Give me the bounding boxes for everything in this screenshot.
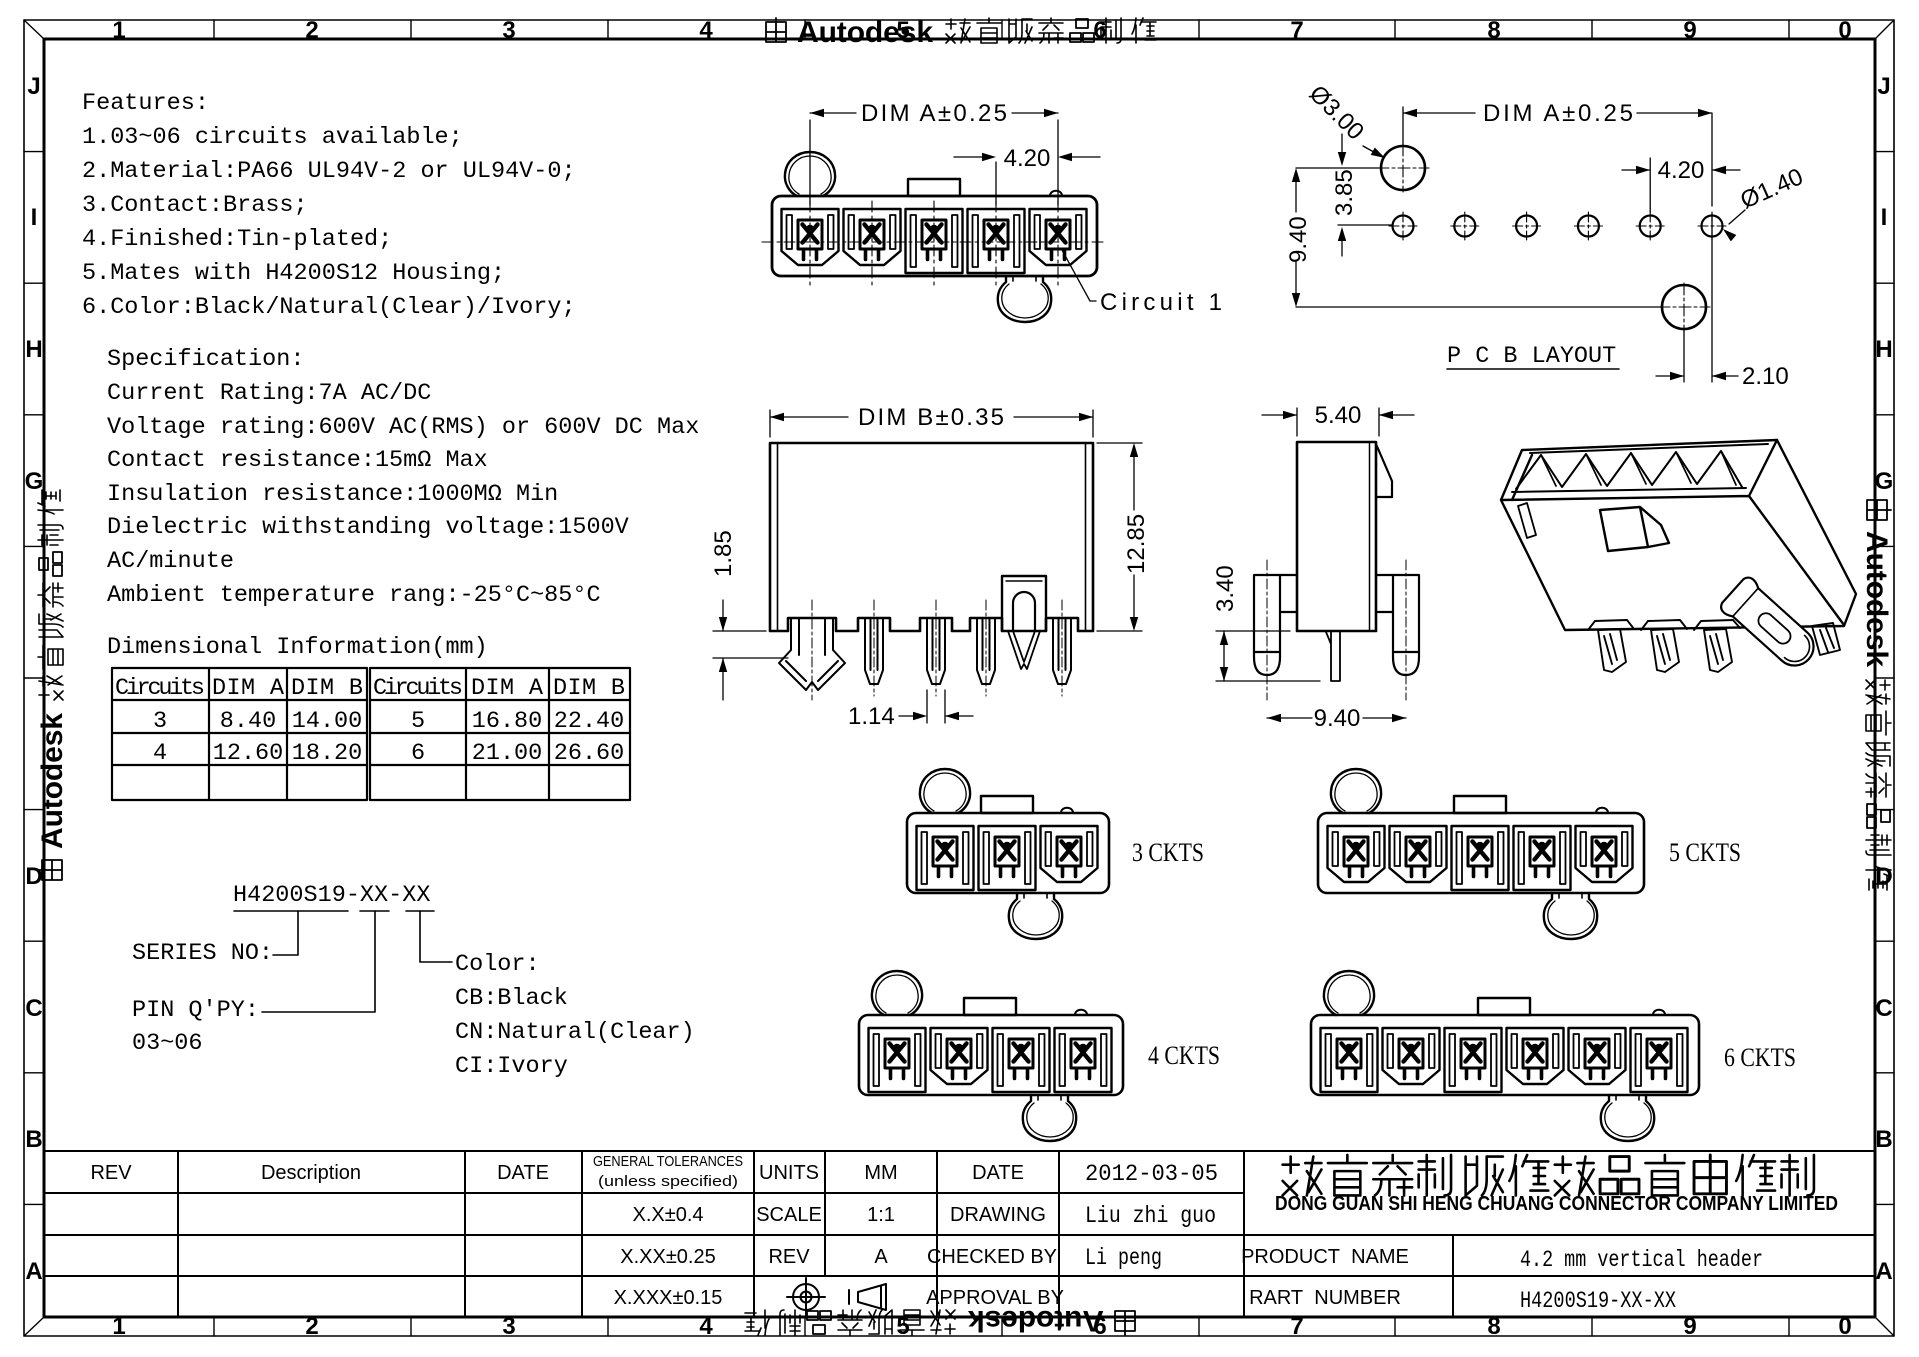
circuit 4 cavity — [844, 209, 901, 265]
4 CKTS circuit 1 cavity — [869, 1028, 926, 1092]
6 CKTS circuit 1 cavity — [1321, 1028, 1378, 1092]
svg-text:1.03~06 circuits available;: 1.03~06 circuits available; — [82, 124, 463, 151]
svg-text:P C B LAYOUT: P C B LAYOUT — [1447, 343, 1616, 370]
housing body — [770, 443, 1093, 631]
svg-text:H: H — [1875, 336, 1892, 363]
svg-text:SCALE: SCALE — [756, 1204, 822, 1226]
left slot — [1518, 503, 1536, 538]
projection symbols — [787, 1278, 886, 1316]
svg-text:Liu zhi guo: Liu zhi guo — [1085, 1203, 1216, 1230]
dim 5.40 — [1262, 408, 1414, 436]
4 CKTS circuit 3 cavity — [993, 1028, 1050, 1092]
3 CKTS circuit 3 cavity — [1041, 826, 1098, 882]
svg-text:7: 7 — [1290, 17, 1303, 44]
svg-text:9: 9 — [1683, 17, 1696, 44]
svg-text:21.00: 21.00 — [472, 740, 543, 767]
svg-text:8: 8 — [1487, 1313, 1500, 1340]
6 CKTS circuit 5 cavity — [1569, 1028, 1626, 1084]
svg-text:Insulation resistance:1000MΩ M: Insulation resistance:1000MΩ Min — [107, 481, 558, 508]
pin 4 — [977, 618, 995, 684]
svg-text:6: 6 — [1093, 17, 1106, 44]
svg-text:4 CKTS: 4 CKTS — [1148, 1041, 1220, 1070]
svg-text:H4200S19-XX-XX: H4200S19-XX-XX — [1520, 1288, 1676, 1315]
svg-text:2.10: 2.10 — [1742, 363, 1789, 390]
svg-text:6.Color:Black/Natural(Clear)/I: 6.Color:Black/Natural(Clear)/Ivory; — [82, 294, 576, 321]
svg-text:C: C — [1875, 995, 1892, 1022]
svg-text:4: 4 — [699, 17, 713, 44]
dim 9.40 — [1267, 717, 1406, 719]
latch tab — [908, 179, 960, 196]
svg-text:2.Material:PA66 UL94V-2 or UL9: 2.Material:PA66 UL94V-2 or UL94V-0; — [82, 158, 576, 185]
svg-text:DRAWING: DRAWING — [950, 1204, 1046, 1226]
svg-text:4.Finished:Tin-plated;: 4.Finished:Tin-plated; — [82, 226, 392, 253]
wire: cell centerlines dashed — [762, 201, 1107, 287]
svg-text:Description: Description — [261, 1162, 361, 1184]
svg-text:4.20: 4.20 — [1004, 145, 1051, 172]
dim 3.85 — [1338, 134, 1392, 256]
circuit 2 cavity — [968, 209, 1025, 273]
svg-text:03~06: 03~06 — [132, 1030, 203, 1057]
5 CKTS circuit 2 cavity — [1390, 826, 1447, 882]
svg-text:8: 8 — [1487, 17, 1500, 44]
mounting ear top — [785, 152, 835, 196]
svg-text:1: 1 — [112, 17, 125, 44]
hole A2 (Ø3.00) bottom right — [1662, 285, 1706, 329]
watermark right (rotated 90) — [1860, 500, 1893, 890]
svg-text:X.XX±0.25: X.XX±0.25 — [620, 1246, 715, 1268]
svg-text:H4200S19-XX-XX: H4200S19-XX-XX — [233, 882, 430, 909]
svg-text:DIM A: DIM A — [471, 675, 544, 702]
watermark bottom (rotated 180) — [745, 1304, 1135, 1337]
pin 5 — [1008, 618, 1071, 684]
6 CKTS circuit 6 cavity — [1631, 1028, 1688, 1092]
6 CKTS circuit 2 cavity — [1383, 1028, 1440, 1084]
mounting ear bottom — [998, 276, 1051, 322]
svg-text:DIM B: DIM B — [291, 675, 363, 702]
svg-text:6: 6 — [411, 740, 425, 767]
svg-text:4.2 mm vertical header: 4.2 mm vertical header — [1520, 1247, 1763, 1274]
dim 1.14 — [899, 690, 973, 723]
svg-text:5 CKTS: 5 CKTS — [1669, 838, 1741, 867]
4 CKTS circuit 4 cavity — [1055, 1028, 1112, 1092]
dim DIM A±0.25 — [1403, 107, 1712, 206]
pin 1 crimp — [779, 618, 845, 690]
svg-text:GENERAL TOLERANCES: GENERAL TOLERANCES — [593, 1153, 743, 1170]
svg-text:H: H — [25, 336, 42, 363]
svg-text:AC/minute: AC/minute — [107, 548, 234, 575]
3 CKTS circuit 1 cavity — [917, 826, 974, 890]
svg-text:C: C — [25, 995, 42, 1022]
right leg — [1376, 575, 1419, 675]
svg-text:MM: MM — [864, 1162, 897, 1184]
svg-text:3.Contact:Brass;: 3.Contact:Brass; — [82, 192, 308, 219]
6 CKTS circuit 4 cavity — [1507, 1028, 1564, 1084]
svg-text:B: B — [25, 1126, 42, 1153]
dim DIM B±0.35 — [770, 410, 1093, 437]
body — [1297, 442, 1376, 631]
company chinese name (fake glyphs) + english — [1283, 1155, 1814, 1196]
top strip front edge + front face right edge — [1501, 440, 1844, 625]
svg-text:5: 5 — [411, 708, 425, 735]
pin 2 — [865, 618, 883, 684]
connector body 5ckt — [772, 196, 1097, 276]
svg-text:5: 5 — [896, 1313, 909, 1340]
svg-text:A: A — [25, 1258, 42, 1285]
hole A1 (Ø3.00) — [1381, 146, 1425, 190]
dim 4.20 — [982, 153, 996, 161]
6 CKTS circuit 3 cavity — [1445, 1028, 1502, 1092]
leader Circuit 1 — [1062, 250, 1096, 301]
svg-text:Features:: Features: — [82, 90, 209, 117]
svg-text:I: I — [31, 204, 38, 231]
peg tower — [1002, 576, 1046, 631]
svg-text:9.40: 9.40 — [1285, 216, 1312, 263]
ruler ticks top/bottom — [214, 20, 1789, 39]
svg-text:3.85: 3.85 — [1331, 169, 1358, 216]
svg-text:12.85: 12.85 — [1123, 514, 1150, 574]
svg-text:A: A — [874, 1246, 888, 1268]
svg-text:Circuits: Circuits — [115, 675, 205, 702]
svg-text:3: 3 — [153, 708, 167, 735]
svg-text:PIN Q'PY:: PIN Q'PY: — [132, 997, 259, 1024]
svg-text:Dielectric withstanding voltag: Dielectric withstanding voltage:1500V — [107, 514, 629, 541]
svg-text:DONG GUAN SHI HENG CHUANG CONN: DONG GUAN SHI HENG CHUANG CONNECTOR COMP… — [1275, 1193, 1838, 1215]
svg-text:1.85: 1.85 — [710, 530, 737, 577]
svg-text:1:1: 1:1 — [867, 1204, 895, 1226]
svg-text:Contact resistance:15mΩ Max: Contact resistance:15mΩ Max — [107, 447, 488, 474]
svg-text:3: 3 — [502, 1313, 515, 1340]
svg-text:1: 1 — [112, 1313, 125, 1340]
svg-text:6 CKTS: 6 CKTS — [1724, 1043, 1796, 1072]
svg-text:CI:Ivory: CI:Ivory — [455, 1053, 568, 1080]
svg-text:Dimensional Information(mm): Dimensional Information(mm) — [107, 634, 488, 661]
svg-text:Li peng: Li peng — [1085, 1245, 1162, 1272]
svg-text:3: 3 — [502, 17, 515, 44]
svg-text:X.X±0.4: X.X±0.4 — [632, 1204, 703, 1226]
svg-text:3 CKTS: 3 CKTS — [1132, 838, 1204, 867]
svg-text:DIM A±0.25: DIM A±0.25 — [861, 100, 1007, 127]
dim 9.40 — [1296, 168, 1662, 307]
5 CKTS circuit 1 cavity — [1328, 826, 1385, 882]
svg-text:A: A — [1875, 1258, 1892, 1285]
watermark top: 由 Autodesk 教育版产品制作 — [766, 16, 1156, 49]
svg-text:5.Mates with H4200S12 Housing;: 5.Mates with H4200S12 Housing; — [82, 260, 505, 287]
dim 1.85 — [713, 600, 788, 700]
svg-text:9: 9 — [1683, 1313, 1696, 1340]
pin holes Ø1.40 — [1393, 216, 1723, 237]
svg-text:PRODUCT NAME: PRODUCT NAME — [1241, 1246, 1409, 1268]
svg-text:DATE: DATE — [497, 1162, 549, 1184]
svg-text:SERIES NO:: SERIES NO: — [132, 940, 273, 967]
svg-text:REV: REV — [90, 1162, 132, 1184]
svg-text:Color:: Color: — [455, 951, 540, 978]
dim 2.10 — [1656, 329, 1738, 382]
svg-text:APPROVAL BY: APPROVAL BY — [926, 1287, 1064, 1309]
5 CKTS circuit 5 cavity — [1576, 826, 1633, 882]
svg-text:DIM A: DIM A — [212, 675, 285, 702]
svg-text:5.40: 5.40 — [1315, 402, 1362, 429]
svg-text:22.40: 22.40 — [554, 708, 625, 735]
5 CKTS circuit 3 cavity — [1452, 826, 1509, 890]
svg-text:D: D — [25, 863, 42, 890]
dim 4.20 — [1622, 158, 1740, 382]
svg-text:4.20: 4.20 — [1658, 157, 1705, 184]
svg-text:16.80: 16.80 — [472, 708, 543, 735]
svg-text:CB:Black: CB:Black — [455, 985, 568, 1012]
svg-text:UNITS: UNITS — [759, 1162, 819, 1184]
svg-text:J: J — [27, 73, 40, 100]
cavity zigzag — [1512, 444, 1768, 492]
svg-text:2012-03-05: 2012-03-05 — [1085, 1161, 1218, 1188]
svg-text:G: G — [1875, 468, 1894, 495]
svg-text:18.20: 18.20 — [292, 740, 363, 767]
svg-text:RART NUMBER: RART NUMBER — [1249, 1287, 1401, 1309]
circuit 1 cavity — [1030, 209, 1087, 265]
svg-text:CN:Natural(Clear): CN:Natural(Clear) — [455, 1019, 695, 1046]
svg-text:7: 7 — [1290, 1313, 1303, 1340]
dim 3.40 — [1216, 631, 1320, 681]
svg-text:DIM A±0.25: DIM A±0.25 — [1483, 100, 1633, 127]
svg-text:Ambient temperature rang:-25°C: Ambient temperature rang:-25°C~85°C — [107, 582, 601, 609]
svg-text:J: J — [1877, 73, 1890, 100]
watermark left (rotated -90) — [36, 490, 69, 880]
ruler ticks left/right — [24, 152, 44, 1205]
svg-text:X.XXX±0.15: X.XXX±0.15 — [614, 1287, 723, 1309]
circuit 5 cavity — [782, 209, 839, 265]
dim 12.85 — [1097, 443, 1142, 631]
svg-text:B: B — [1875, 1126, 1892, 1153]
svg-text:I: I — [1881, 204, 1888, 231]
4 CKTS circuit 2 cavity — [931, 1028, 988, 1084]
svg-text:3.40: 3.40 — [1212, 565, 1239, 612]
svg-text:0: 0 — [1838, 1313, 1851, 1340]
svg-text:14.00: 14.00 — [292, 708, 363, 735]
iso pins — [1588, 620, 1840, 672]
svg-text:8.40: 8.40 — [220, 708, 276, 735]
svg-text:4: 4 — [699, 1313, 713, 1340]
svg-text:(unless specified): (unless specified) — [598, 1173, 738, 1190]
latch hook — [1376, 444, 1392, 497]
svg-text:G: G — [25, 468, 44, 495]
svg-text:CHECKED BY: CHECKED BY — [927, 1246, 1057, 1268]
svg-text:1.14: 1.14 — [848, 703, 895, 730]
dim DIM A±0.25 — [810, 113, 1100, 205]
svg-text:REV: REV — [768, 1246, 810, 1268]
pin 3 — [927, 618, 945, 684]
svg-text:Circuits: Circuits — [373, 675, 463, 702]
center pin — [1326, 631, 1340, 681]
3 CKTS circuit 2 cavity — [979, 826, 1036, 890]
svg-text:9.40: 9.40 — [1314, 705, 1361, 732]
left leg — [1254, 575, 1297, 675]
body silhouette — [1501, 440, 1856, 630]
svg-text:Current Rating:7A AC/DC: Current Rating:7A AC/DC — [107, 380, 431, 407]
svg-text:DIM B±0.35: DIM B±0.35 — [858, 404, 1004, 431]
5 CKTS circuit 4 cavity — [1514, 826, 1571, 890]
svg-text:0: 0 — [1838, 17, 1851, 44]
svg-text:4: 4 — [153, 740, 167, 767]
notch — [1050, 191, 1062, 196]
circuit 3 cavity — [906, 209, 963, 273]
svg-text:DIM B: DIM B — [553, 675, 625, 702]
latch block — [1600, 507, 1669, 551]
iso peg cylinder — [1718, 575, 1823, 676]
svg-text:Specification:: Specification: — [107, 346, 304, 373]
svg-text:12.60: 12.60 — [213, 740, 284, 767]
svg-text:DATE: DATE — [972, 1162, 1024, 1184]
svg-text:26.60: 26.60 — [554, 740, 625, 767]
svg-text:2: 2 — [305, 17, 318, 44]
svg-text:2: 2 — [305, 1313, 318, 1340]
svg-text:Voltage rating:600V AC(RMS) or: Voltage rating:600V AC(RMS) or 600V DC M… — [107, 414, 699, 441]
